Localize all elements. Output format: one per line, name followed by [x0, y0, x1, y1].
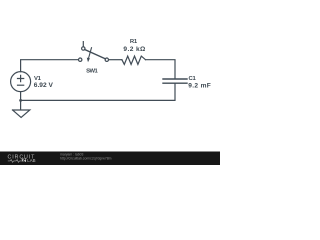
svg-text:9.2 mF: 9.2 mF [188, 82, 211, 89]
wire V1 bottom to node [20, 92, 22, 101]
switch SW1 blade [85, 50, 106, 59]
ground [13, 100, 30, 117]
wire resistor to top-right corner and down to C1 [146, 60, 176, 79]
voltage source V1 [11, 72, 31, 92]
footer black bar [0, 152, 220, 166]
svg-text:http://circuitlab.com/c2q7dqrw: http://circuitlab.com/c2q7dqrw78m [60, 156, 112, 160]
resistor R1 [122, 56, 146, 64]
switch SW1 actuator arrow shaft [89, 48, 92, 58]
svg-text:SW1: SW1 [86, 69, 98, 75]
V1 plus sign [18, 75, 24, 81]
switch SW1 terminal right [105, 58, 108, 61]
switch SW1 upper throw terminal [82, 47, 85, 50]
svg-text:R1: R1 [130, 39, 138, 45]
capacitor C1 [163, 79, 187, 83]
svg-text:6.92 V: 6.92 V [34, 82, 54, 89]
V1 minus sign [18, 84, 24, 86]
svg-text:9.2 kΩ: 9.2 kΩ [123, 46, 146, 53]
switch SW1 upper stub [82, 42, 84, 47]
footer logo waveform [8, 160, 21, 163]
wire top-left: V1 top to switch left terminal [21, 60, 79, 72]
node junction dot [19, 99, 22, 102]
wire C1 bottom down and bottom rail to node [21, 84, 175, 101]
svg-text:C1: C1 [189, 76, 197, 82]
footer logo square [22, 159, 26, 162]
wire switch right terminal to resistor [109, 59, 122, 61]
switch SW1 terminal left [79, 58, 82, 61]
svg-text:LAB: LAB [27, 158, 35, 163]
switch SW1 actuator arrowhead [87, 58, 90, 63]
